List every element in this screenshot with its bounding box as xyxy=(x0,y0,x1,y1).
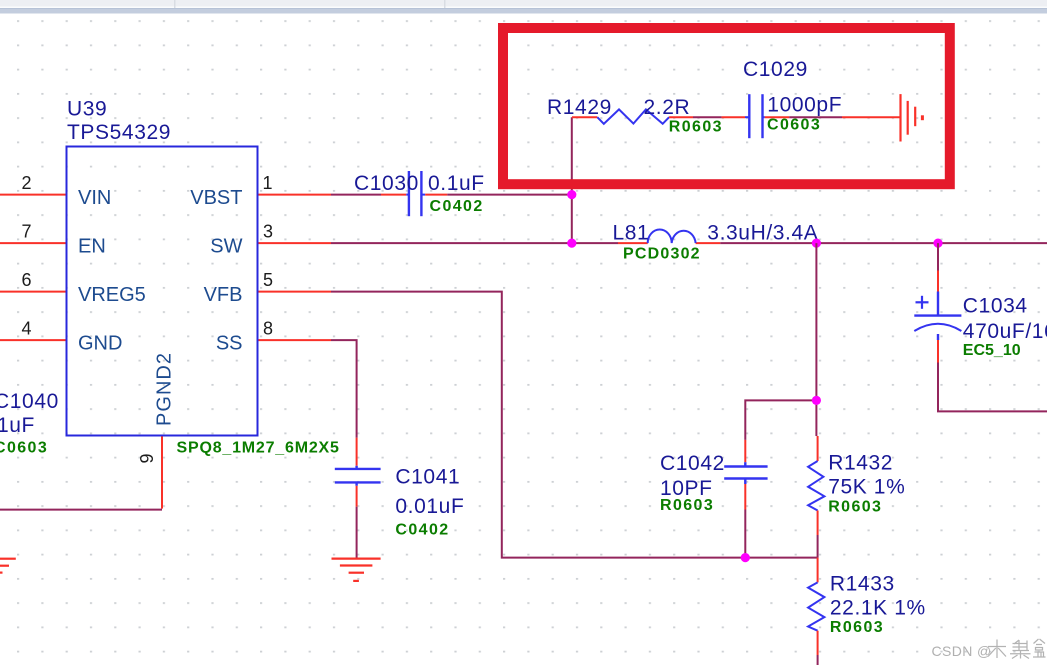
svg-text:1uF: 1uF xyxy=(0,414,35,437)
pin 3 SW xyxy=(210,222,331,258)
svg-text:9: 9 xyxy=(137,453,157,463)
ground (left edge, partial) xyxy=(0,559,16,573)
U39 value TPS54329 xyxy=(67,121,171,144)
wire C1029 to ground xyxy=(763,116,900,118)
svg-text:4: 4 xyxy=(21,319,31,339)
pin 4 GND xyxy=(0,319,122,355)
svg-text:470uF/16: 470uF/16 xyxy=(963,320,1047,343)
pin 8 SS xyxy=(216,319,331,355)
capacitor C1030 xyxy=(354,171,485,216)
pin 5 VFB xyxy=(204,270,331,306)
svg-text:C0402: C0402 xyxy=(430,198,484,215)
resistor R1432 xyxy=(808,452,905,516)
svg-text:L81: L81 xyxy=(613,222,650,245)
svg-text:C0402: C0402 xyxy=(395,521,449,538)
wire C1041 to ground xyxy=(355,482,357,558)
svg-text:2.2R: 2.2R xyxy=(644,96,691,119)
capacitor C1042 xyxy=(660,452,768,514)
svg-text:C1030: C1030 xyxy=(354,172,419,195)
svg-text:EN: EN xyxy=(78,236,106,258)
svg-text:R1433: R1433 xyxy=(830,572,895,595)
svg-text:EC5_10: EC5_10 xyxy=(963,342,1021,359)
node junction (938,243) xyxy=(933,239,942,248)
svg-text:8: 8 xyxy=(263,319,273,339)
svg-text:VIN: VIN xyxy=(78,187,111,209)
svg-text:C1041: C1041 xyxy=(395,466,460,489)
svg-text:GND: GND xyxy=(78,333,122,355)
svg-text:VFB: VFB xyxy=(204,284,243,306)
svg-text:TPS54329: TPS54329 xyxy=(67,121,171,144)
svg-text:3.3uH/3.4A: 3.3uH/3.4A xyxy=(707,222,818,245)
wire SW net xyxy=(331,242,1047,244)
pin 9 (bottom) xyxy=(137,436,162,508)
pin 6 VREG5 xyxy=(0,270,146,306)
wire net pin9 to left xyxy=(0,509,162,511)
svg-text:SPQ8_1M27_6M2X5: SPQ8_1M27_6M2X5 xyxy=(177,440,340,457)
inductor L81 xyxy=(613,222,819,263)
svg-text:1000pF: 1000pF xyxy=(767,93,842,116)
svg-text:75K 1%: 75K 1% xyxy=(828,476,905,499)
U39 footprint label xyxy=(177,440,340,457)
ground (C1029, right-facing) xyxy=(901,94,923,141)
svg-text:R0603: R0603 xyxy=(669,118,723,135)
svg-text:CSDN @: CSDN @ xyxy=(932,643,992,659)
pin name PGND2 (rotated) xyxy=(154,352,176,426)
wire VBST net xyxy=(331,117,572,243)
svg-text:C1040: C1040 xyxy=(0,390,59,413)
U39 designator xyxy=(67,98,107,121)
svg-text:3: 3 xyxy=(263,222,273,242)
svg-text:U39: U39 xyxy=(67,98,107,121)
red highlight box xyxy=(503,28,950,184)
resistor R1433 xyxy=(808,558,926,665)
wire VFB net xyxy=(331,292,818,558)
node junction (745.3,557.6) xyxy=(741,553,750,562)
pin 7 EN xyxy=(0,222,106,258)
svg-text:0.1uF: 0.1uF xyxy=(428,172,485,195)
wire SW to R1432 xyxy=(816,243,817,461)
node junction (816.4,243) xyxy=(812,239,821,248)
svg-text:PGND2: PGND2 xyxy=(154,352,176,426)
wire SS net xyxy=(331,340,357,469)
wire C1034 branch xyxy=(938,243,1047,411)
svg-text:C0603: C0603 xyxy=(767,116,821,133)
watermark CSDN xyxy=(932,639,1046,659)
svg-text:1: 1 xyxy=(262,173,272,193)
svg-text:6: 6 xyxy=(21,270,31,290)
svg-text:PCD0302: PCD0302 xyxy=(623,246,701,263)
ground (C1041) xyxy=(332,559,381,581)
node junction (816.4,400.4) xyxy=(812,396,821,405)
capacitor C1029 xyxy=(743,58,842,138)
resistor R1429 xyxy=(547,96,723,135)
svg-text:R0603: R0603 xyxy=(660,497,714,514)
node junction (572,243) xyxy=(567,239,576,248)
svg-text:0.01uF: 0.01uF xyxy=(395,495,464,518)
svg-text:R0603: R0603 xyxy=(828,499,882,516)
IC U39 body xyxy=(67,147,258,436)
node junction (572,194.6) xyxy=(567,190,576,199)
svg-text:C1034: C1034 xyxy=(963,295,1028,318)
svg-text:C1029: C1029 xyxy=(743,58,808,81)
svg-text:VBST: VBST xyxy=(190,187,242,209)
svg-text:C1042: C1042 xyxy=(660,452,725,475)
svg-text:SW: SW xyxy=(210,236,242,258)
svg-text:R1432: R1432 xyxy=(828,452,893,475)
capacitor C1041 xyxy=(335,466,465,539)
svg-text:SS: SS xyxy=(216,333,243,355)
svg-text:C0603: C0603 xyxy=(0,440,48,457)
svg-text:5: 5 xyxy=(263,270,273,290)
top window strip xyxy=(0,0,1047,14)
capacitor C1040 labels (component off-canvas left) xyxy=(0,390,59,457)
svg-text:VREG5: VREG5 xyxy=(78,284,146,306)
wire R1432 bottom xyxy=(817,511,819,558)
svg-text:22.1K 1%: 22.1K 1% xyxy=(830,597,926,620)
svg-text:R0603: R0603 xyxy=(830,619,884,636)
svg-text:7: 7 xyxy=(21,222,31,242)
svg-text:R1429: R1429 xyxy=(547,96,612,119)
capacitor C1034 (polarized) xyxy=(914,295,1047,359)
pin 1 VBST xyxy=(190,173,331,209)
wire C1042 branch xyxy=(745,400,816,557)
pin 2 VIN xyxy=(0,173,111,209)
wire R1429 to C1029 xyxy=(693,116,749,118)
svg-text:2: 2 xyxy=(21,173,31,193)
